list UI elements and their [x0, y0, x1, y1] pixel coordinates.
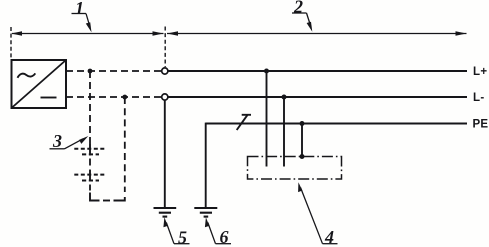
terminal circle L+	[162, 68, 168, 74]
node junction dot on dashed L-	[122, 95, 127, 100]
wire dashed L+ from converter	[66, 70, 161, 72]
wire dashed L- from converter	[66, 96, 161, 98]
svg-text:PE: PE	[473, 119, 489, 131]
label 2 leader	[292, 13, 312, 32]
bottom dashed wire left corner	[90, 193, 100, 201]
converter DC minus	[41, 97, 57, 99]
node junction dot PE at box	[300, 154, 305, 159]
equipment box 4 dash-dot	[248, 157, 342, 180]
T tap symbol bar	[242, 114, 251, 116]
wire L- solid	[168, 96, 467, 98]
dimension line 2	[167, 31, 467, 36]
svg-text:5: 5	[178, 228, 187, 247]
svg-text:1: 1	[75, 0, 84, 18]
svg-text:L+: L+	[473, 66, 487, 78]
node junction dot L- drop	[282, 95, 287, 100]
wire PE left corner down	[205, 123, 207, 208]
svg-text:4: 4	[324, 227, 334, 247]
svg-text:3: 3	[52, 131, 62, 151]
label 4 leader	[298, 182, 337, 244]
T tap symbol slash	[237, 115, 248, 130]
capacitor C1	[74, 144, 105, 156]
wire ground 5 vertical	[164, 100, 166, 208]
capacitor branch dashed wire lower	[89, 185, 91, 194]
wire drop from L-	[283, 97, 285, 167]
terminal circle L-	[162, 94, 168, 100]
node junction dot L+ drop	[264, 69, 269, 74]
return branch dashed wire vertical	[124, 97, 126, 192]
svg-text:2: 2	[293, 0, 303, 17]
capacitor C2	[74, 170, 105, 182]
bottom dashed wire middle dash	[103, 200, 110, 202]
label 5 leader	[163, 217, 189, 243]
capacitor branch dashed wire middle	[89, 159, 91, 171]
wire drop from L+	[266, 71, 268, 167]
svg-text:L-: L-	[473, 92, 484, 104]
converter U1 box	[12, 60, 67, 108]
converter diagonal	[12, 60, 67, 108]
dimension line 1	[11, 31, 164, 36]
extension line left	[10, 27, 12, 59]
extension line middle	[164, 27, 166, 68]
label 3 leader	[50, 136, 89, 149]
label 6 leader	[205, 217, 231, 243]
node junction dot on dashed L+	[88, 69, 93, 74]
wire PE solid	[206, 123, 468, 125]
wire drop from PE	[301, 124, 303, 157]
converter AC tilde	[18, 73, 36, 77]
ground 5	[154, 208, 177, 217]
node junction dot PE line	[300, 121, 305, 126]
svg-text:6: 6	[220, 227, 229, 247]
bottom dashed wire right corner	[114, 197, 125, 201]
label 1 leader	[72, 14, 92, 33]
capacitor branch dashed wire upper	[89, 71, 91, 144]
wire L+ solid	[168, 70, 467, 72]
ground 6	[194, 208, 217, 217]
